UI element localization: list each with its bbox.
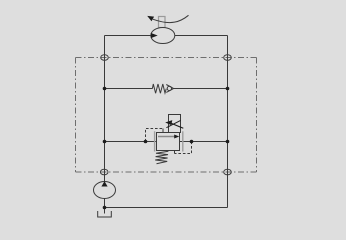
- pilot line left (dashed): [146, 129, 164, 142]
- port top-right: [224, 55, 232, 61]
- port bottom-right: [224, 169, 232, 175]
- motor shaft: [159, 17, 166, 28]
- wire relief valve branch left: [105, 141, 157, 143]
- check valve V1 ball: [167, 86, 171, 90]
- relief valve V2 adjustment arrow (crossed): [165, 120, 183, 128]
- wire bottom return line: [105, 207, 228, 209]
- node G (tank junction): [103, 206, 107, 210]
- pilot line right (dashed): [175, 142, 192, 154]
- node D (left pilot tap, relief line): [144, 140, 148, 144]
- node E (right pilot tap, relief line): [190, 140, 194, 144]
- wire right vertical: [227, 36, 229, 208]
- relief valve V2 left port bar: [154, 131, 156, 151]
- wire check valve branch left: [105, 88, 153, 90]
- port bottom-left: [100, 169, 108, 175]
- enclosure boundary (dash-dot assembly frame): [76, 58, 257, 173]
- relief valve V2 spring: [155, 151, 168, 164]
- hydraulic motor M1: [151, 28, 175, 44]
- wire top rail: [105, 35, 228, 37]
- wire check valve branch right: [174, 88, 228, 90]
- node F (right, relief line): [226, 140, 230, 144]
- tank: [98, 211, 112, 217]
- port top-left: [101, 55, 109, 61]
- wire pump to tank: [104, 198, 106, 213]
- node C (left, relief line): [103, 140, 107, 144]
- node A (left, check valve line): [103, 87, 107, 91]
- wire relief valve branch right: [180, 141, 228, 143]
- relief valve V2 body: [157, 133, 180, 151]
- check valve V1 spring: [152, 84, 166, 93]
- wire left vertical: [104, 36, 106, 183]
- rotation arrow (arc over shaft): [147, 15, 188, 22]
- node B (right, check valve line): [226, 87, 230, 91]
- relief valve V2 right port bar: [182, 131, 184, 151]
- check valve V1 seat: [166, 85, 173, 93]
- relief valve V2 adjustment cap: [169, 115, 181, 133]
- pump P1: [94, 181, 116, 198]
